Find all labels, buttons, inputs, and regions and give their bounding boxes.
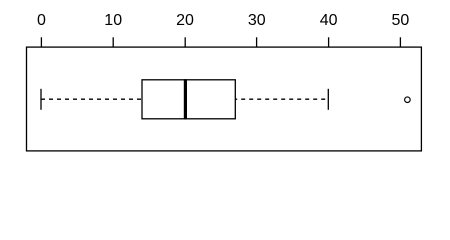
svg-text:30: 30 bbox=[248, 12, 266, 29]
axis tick mark 50 bbox=[399, 37, 401, 47]
IQR box bbox=[142, 80, 235, 119]
right whisker dashed line bbox=[235, 98, 328, 100]
svg-text:40: 40 bbox=[320, 12, 338, 29]
right whisker end cap bbox=[327, 89, 329, 110]
axis tick mark 40 bbox=[328, 37, 330, 47]
svg-text:10: 10 bbox=[104, 12, 122, 29]
outlier point bbox=[405, 97, 411, 103]
svg-text:20: 20 bbox=[176, 12, 194, 29]
plot border rectangle bbox=[27, 47, 422, 151]
axis tick mark 0 bbox=[40, 37, 42, 47]
svg-text:0: 0 bbox=[37, 12, 46, 29]
left whisker dashed line bbox=[41, 98, 142, 100]
left whisker end cap bbox=[40, 89, 42, 110]
axis tick mark 20 bbox=[184, 37, 186, 47]
axis tick mark 30 bbox=[256, 37, 258, 47]
median line bbox=[184, 79, 187, 119]
svg-text:50: 50 bbox=[392, 12, 410, 29]
axis tick mark 10 bbox=[112, 37, 114, 47]
